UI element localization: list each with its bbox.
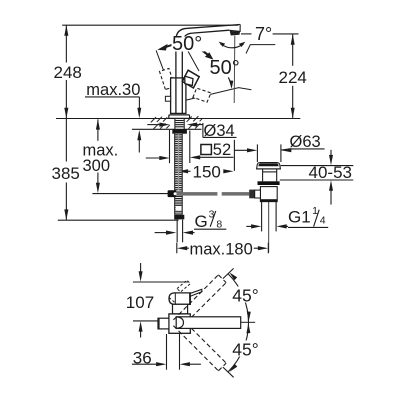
arc arrow at top (points up-left) <box>229 272 237 280</box>
svg-text:4: 4 <box>320 214 326 226</box>
spout tip face <box>229 25 240 32</box>
label square 52 <box>201 145 212 155</box>
extension lines escutcheon <box>169 130 171 163</box>
dimension O63 <box>234 144 324 162</box>
dimension max.300 <box>92 119 176 193</box>
escutcheon base <box>169 115 190 119</box>
svg-text:150: 150 <box>193 162 221 181</box>
dimension G 1 1/4 <box>246 210 328 228</box>
label 36 <box>131 349 152 368</box>
dashed handle position left <box>160 68 175 89</box>
drain neck <box>263 169 277 181</box>
handle lever solid <box>182 70 199 88</box>
handle bar top view <box>169 293 190 304</box>
spout tip center line <box>241 321 256 323</box>
svg-text:3: 3 <box>209 208 215 220</box>
svg-text:G1: G1 <box>288 208 311 227</box>
counter bottom line <box>132 128 202 130</box>
body left tab <box>165 96 170 101</box>
arrow up at top line (248/385) <box>64 25 68 36</box>
O34 label leader box <box>202 123 204 137</box>
dimension 40-53 <box>280 150 354 205</box>
riser and spout outer edge <box>176 25 240 114</box>
drain side port <box>249 190 255 199</box>
svg-text:Ø34: Ø34 <box>204 122 235 140</box>
50deg angle line left (dashed handle axis) <box>156 50 176 102</box>
svg-text:50°: 50° <box>210 57 240 79</box>
svg-text:max.180: max.180 <box>190 241 253 259</box>
dimension 150 <box>186 140 234 172</box>
svg-text:107: 107 <box>126 293 154 312</box>
pull rod inside shank <box>178 134 180 191</box>
svg-text:G: G <box>195 212 208 231</box>
label 50deg no.1 <box>172 33 205 55</box>
svg-text:8: 8 <box>216 219 222 231</box>
counter top line <box>56 118 300 120</box>
threaded shank below nut <box>175 134 183 215</box>
50deg no.1 arc arrow left <box>157 44 167 51</box>
svg-text:385: 385 <box>52 164 80 183</box>
handle lever end face <box>185 76 193 85</box>
dashed spout rotated -45 <box>173 318 226 371</box>
mount body square top view <box>169 314 190 333</box>
svg-text:40-53: 40-53 <box>309 163 352 182</box>
drain center line <box>268 202 270 253</box>
drain flange <box>257 163 281 169</box>
G3/8 nut <box>174 215 184 220</box>
dimension G 3/8 <box>155 211 227 233</box>
handle lip top view <box>190 289 202 296</box>
dashed handle position right <box>193 88 211 102</box>
dimension 248/385 vertical line <box>65 25 67 62</box>
45deg axis extension line top <box>223 268 234 278</box>
aerator <box>230 31 240 36</box>
horizontal pop-up rod <box>176 192 217 196</box>
dimension max.180 <box>177 243 268 254</box>
svg-text:50°: 50° <box>172 33 202 55</box>
label 45 bottom <box>231 340 260 360</box>
riser and spout inner edge <box>182 30 229 113</box>
cartridge housing top view <box>173 304 188 314</box>
drain tail pipe <box>262 202 277 232</box>
7deg arc under spout tip <box>220 44 243 48</box>
supply tube <box>177 220 182 243</box>
lever axis reference line <box>184 44 199 71</box>
svg-text:1: 1 <box>312 205 318 217</box>
dashed spout rotated +45 <box>173 275 226 328</box>
water stream line <box>233 36 236 103</box>
dashed handle rotated position <box>169 280 190 303</box>
spout rounded inner end <box>176 317 183 328</box>
svg-text:max.30: max.30 <box>86 81 140 99</box>
50deg angle line right (to forward handle) <box>176 88 252 103</box>
dimension square-52 <box>146 130 234 163</box>
svg-text:Ø63: Ø63 <box>290 133 321 151</box>
pull-rod reference line <box>92 193 176 195</box>
counter hatching left of shank <box>151 116 202 129</box>
svg-text:248: 248 <box>54 63 82 82</box>
mounting nut <box>172 129 187 134</box>
svg-text:52: 52 <box>213 141 231 159</box>
svg-text:45°: 45° <box>232 286 258 306</box>
arc arrowheads at spout tip <box>247 311 251 321</box>
swivel arc through spout tip <box>228 274 248 372</box>
svg-text:224: 224 <box>279 68 307 87</box>
rod clamp <box>168 190 177 197</box>
svg-text:7°: 7° <box>255 24 272 44</box>
svg-text:300: 300 <box>83 157 111 175</box>
faucet body <box>171 78 186 114</box>
counter hatching right of shank <box>187 117 192 122</box>
svg-text:36: 36 <box>133 349 152 368</box>
dimension 36 <box>132 334 201 370</box>
threaded shank through counter <box>175 119 184 130</box>
dimension arrows for O34 <box>147 123 236 137</box>
dimension 107 <box>133 263 188 338</box>
drain body <box>260 187 277 202</box>
cap left of body <box>158 318 169 329</box>
drain gasket ring <box>258 181 280 185</box>
50deg no.1 arc arrow right <box>199 48 209 56</box>
dimension 224 <box>241 34 299 118</box>
spout top view <box>176 317 241 329</box>
svg-text:45°: 45° <box>232 340 258 360</box>
7 degree leader line <box>246 45 275 54</box>
arrow down at counter (248) <box>64 108 68 119</box>
arc arrow at bottom (points down-left) <box>230 364 238 372</box>
label 50deg no.2 <box>209 57 240 79</box>
top reference line <box>62 24 240 26</box>
45deg axis extension line bottom <box>223 367 234 377</box>
dimension max.30 leader <box>85 97 140 153</box>
supply bottom reference line <box>58 219 179 221</box>
50deg no.2 arc arrow down <box>228 77 231 85</box>
arrow down at supply ref (385) <box>64 209 68 220</box>
label 45 top <box>231 286 260 306</box>
